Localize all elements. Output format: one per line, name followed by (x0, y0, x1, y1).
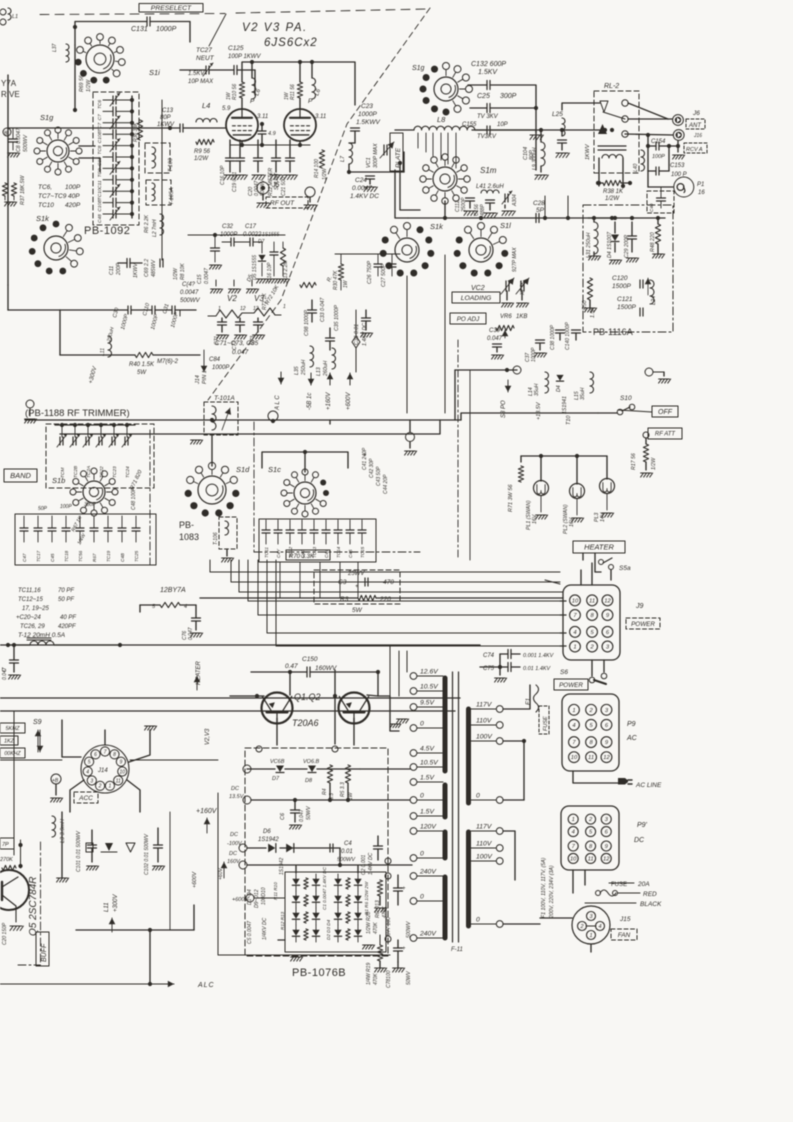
pointer diagonal TC27 (209, 14, 226, 46)
svg-text:110V: 110V (476, 718, 493, 725)
grounds PB-1076B (291, 957, 303, 961)
diode D3 (292, 913, 299, 919)
svg-text:1: 1 (572, 817, 575, 823)
svg-text:C47: C47 (22, 553, 27, 562)
svg-text:1083: 1083 (179, 532, 199, 542)
wire ACC down (169, 812, 171, 930)
svg-text:7: 7 (104, 749, 107, 755)
svg-text:D6: D6 (263, 829, 271, 835)
jack P1 (674, 177, 694, 197)
board PB-1076B outline (245, 748, 388, 956)
coil L2 7mH (160, 214, 164, 235)
svg-text:12: 12 (253, 306, 259, 312)
J14 pin 4 (83, 767, 92, 776)
svg-text:12: 12 (604, 598, 611, 604)
ground C155 (535, 130, 537, 132)
svg-text:3: 3 (90, 778, 93, 784)
transformer left winding bars (443, 678, 448, 771)
svg-text:PIN 1: PIN 1 (202, 370, 208, 384)
ground mid bus (329, 420, 331, 424)
wire VR6 area (454, 370, 456, 420)
fuse symbol (352, 336, 360, 348)
svg-text:R5 3.3: R5 3.3 (340, 782, 346, 797)
PB-1188 trimmers (61, 425, 63, 437)
svg-text:F-11: F-11 (451, 947, 463, 953)
svg-text:2: 2 (98, 784, 102, 790)
lamp PL2 (570, 484, 585, 499)
svg-text:10.5V: 10.5V (420, 684, 439, 691)
svg-text:5.9: 5.9 (222, 106, 231, 112)
svg-text:250uH: 250uH (301, 359, 307, 376)
switch S1k upper (44, 236, 68, 260)
switch S1g upper (47, 140, 69, 162)
svg-text:+160V: +160V (326, 391, 332, 410)
svg-text:380P: 380P (84, 502, 96, 508)
transformer core (452, 672, 454, 942)
relay coil (598, 145, 626, 147)
connector J9 (563, 585, 620, 660)
diode D7 (276, 766, 284, 773)
svg-text:240V: 240V (419, 931, 437, 938)
svg-text:LOADING: LOADING (461, 295, 492, 302)
tap 240V (410, 935, 417, 942)
svg-text:100V: 100V (476, 854, 493, 861)
svg-text:120V: 120V (420, 824, 437, 831)
wire heater row (60, 309, 128, 311)
svg-text:12.6V: 12.6V (420, 669, 439, 676)
label RF OUT (266, 197, 308, 208)
PB-1188 top bus (55, 424, 135, 426)
svg-text:1W: 1W (226, 91, 232, 100)
svg-text:TC9: TC9 (97, 168, 103, 177)
S1c top frame wire (262, 452, 348, 468)
svg-text:C42 30P: C42 30P (369, 458, 375, 478)
svg-text:AC LINE: AC LINE (635, 782, 662, 789)
switch S1i (86, 45, 114, 73)
svg-text:C21 500: C21 500 (281, 177, 287, 196)
svg-text:C27 500P: C27 500P (381, 263, 387, 287)
socket J14 (81, 745, 129, 793)
svg-text:0.47: 0.47 (285, 663, 298, 670)
bottom left wires (76, 929, 194, 931)
switch S5a (582, 553, 584, 560)
svg-text:1000P: 1000P (156, 26, 177, 33)
board bank under S1c (259, 519, 376, 562)
label PO ADJ (450, 313, 486, 324)
L8 taps (417, 133, 419, 148)
terminal PB-1076B in2 (332, 746, 338, 752)
svg-text:C35 1000P: C35 1000P (334, 305, 340, 331)
tap right 117V (496, 706, 503, 713)
resistor R14 (319, 150, 324, 168)
svg-text:260uH: 260uH (323, 360, 329, 377)
svg-text:10: 10 (120, 769, 126, 775)
svg-text:70 PF: 70 PF (58, 588, 74, 594)
label BUFF (36, 932, 49, 966)
svg-text:R13 2.2M: R13 2.2M (283, 259, 289, 282)
switch S1c (294, 482, 316, 504)
svg-text:PO ADJ: PO ADJ (457, 316, 480, 323)
svg-text:1/4W: 1/4W (76, 532, 87, 546)
J14 frame wires (62, 720, 81, 757)
rectifier resistors (304, 878, 308, 889)
svg-text:1000P: 1000P (358, 111, 377, 118)
long bus y698 (0, 697, 460, 699)
lamp PL1 (534, 481, 549, 496)
wire S1m to bus (444, 255, 446, 413)
wire driver caps (222, 241, 231, 243)
svg-text:1/2W: 1/2W (86, 79, 92, 92)
svg-text:R4: R4 (322, 788, 328, 795)
svg-text:300P: 300P (500, 93, 517, 100)
tap 0 (410, 898, 417, 905)
svg-text:R11 R10: R11 R10 (273, 882, 278, 900)
wire J14 loop (218, 793, 390, 955)
tap 10.5V (410, 688, 417, 695)
svg-text:D9~D12: D9~D12 (254, 889, 260, 908)
tap 0 (410, 855, 417, 862)
svg-text:1W: 1W (343, 279, 349, 288)
resistor 12BY7A heater (160, 602, 180, 607)
svg-text:BUFF: BUFF (41, 943, 48, 962)
svg-text:S9: S9 (33, 719, 42, 726)
switch S1b (83, 481, 105, 503)
wire S1m bottom bus (408, 217, 612, 219)
wire T-101A down (211, 435, 213, 466)
svg-text:VO6.B: VO6.B (303, 759, 320, 765)
svg-text:BLACK: BLACK (640, 901, 662, 908)
plate bus (241, 98, 243, 109)
tap 9.5V (410, 704, 417, 711)
svg-text:C44 20P: C44 20P (383, 474, 389, 494)
svg-text:R71 3W 56: R71 3W 56 (508, 484, 514, 512)
svg-text:VR6: VR6 (500, 314, 512, 320)
diode D4 (292, 930, 299, 936)
svg-text:L6: L6 (254, 88, 262, 97)
svg-text:1KWV: 1KWV (585, 143, 591, 160)
diode D1 (292, 879, 299, 885)
label 25WV C3 470 R3 220 5W (314, 570, 400, 604)
svg-text:4: 4 (86, 769, 89, 775)
svg-text:TC19: TC19 (106, 550, 111, 562)
ground Q2 (390, 724, 401, 728)
J14 pin 10 (118, 767, 127, 776)
wire TC27 line (180, 69, 206, 71)
coil L4 (196, 119, 217, 123)
vertical wires mid board (457, 340, 459, 560)
svg-text:8: 8 (113, 752, 116, 758)
svg-text:C43 50P: C43 50P (376, 466, 382, 486)
svg-text:1000P: 1000P (150, 313, 160, 330)
svg-text:6: 6 (94, 752, 97, 758)
svg-text:1KWV: 1KWV (157, 122, 175, 128)
svg-text:C101 0.01 500WV: C101 0.01 500WV (76, 830, 82, 872)
svg-text:RED: RED (643, 891, 657, 898)
svg-text:D4 1S1007: D4 1S1007 (607, 231, 613, 258)
label POWER S6 (554, 679, 588, 690)
svg-text:17, 19~25: 17, 19~25 (22, 606, 50, 612)
svg-text:J14: J14 (195, 375, 201, 385)
svg-text:C38 1000P: C38 1000P (550, 324, 556, 350)
grounds PA row (215, 280, 217, 286)
svg-text:160WV: 160WV (315, 665, 337, 672)
resistor R4 3.3 (327, 765, 332, 783)
svg-text:7: 7 (572, 844, 576, 850)
coil L6a (252, 78, 256, 99)
label FUSE vertical (539, 706, 549, 734)
svg-text:PLATE: PLATE (395, 147, 402, 168)
svg-text:Y7A: Y7A (1, 79, 17, 88)
svg-text:500WV: 500WV (23, 134, 29, 152)
svg-text:1/4KV DC: 1/4KV DC (262, 917, 268, 940)
svg-text:5W: 5W (137, 370, 147, 376)
svg-text:C40: C40 (649, 203, 654, 212)
tube V2 6JS6C (226, 109, 258, 141)
transformer T-103 (145, 143, 170, 173)
svg-text:C17: C17 (245, 224, 257, 230)
svg-text:C20 150P: C20 150P (2, 922, 8, 945)
board BUFF boundary (40, 842, 42, 965)
coil L1 (8, 8, 11, 20)
svg-text:10: 10 (572, 598, 579, 604)
svg-text:T-103: T-103 (168, 157, 174, 172)
resistor R10 56 1W (239, 82, 244, 98)
transistor Q2 (339, 693, 370, 724)
svg-text:C1 0.0047 1.4KV DC: C1 0.0047 1.4KV DC (322, 866, 327, 910)
svg-text:C11: C11 (97, 180, 103, 189)
svg-text:1: 1 (109, 784, 112, 790)
svg-text:D2 D3 D4: D2 D3 D4 (326, 919, 331, 940)
svg-text:1.5KV: 1.5KV (188, 71, 205, 77)
diode clamp (105, 843, 113, 851)
diode D8 (308, 766, 316, 773)
svg-text:P9: P9 (627, 721, 636, 728)
svg-text:11: 11 (588, 755, 594, 761)
svg-text:+60V: +60V (218, 868, 224, 880)
svg-text:VC2: VC2 (471, 285, 485, 292)
svg-text:R17 56: R17 56 (631, 453, 637, 470)
svg-text:0.0047: 0.0047 (180, 290, 199, 296)
switch S1g tank (434, 77, 458, 101)
board PB-1188 lower bank (15, 514, 156, 565)
svg-text:TC26, 29: TC26, 29 (20, 624, 45, 630)
svg-text:DC: DC (231, 786, 239, 792)
svg-text:M7(6)-2: M7(6)-2 (157, 359, 179, 365)
svg-text:P9': P9' (637, 822, 648, 829)
Q1 emitter down (276, 718, 278, 745)
svg-text:C26 750P: C26 750P (367, 260, 373, 284)
long bus y711 (0, 710, 455, 712)
svg-text:0.001 1.4KV: 0.001 1.4KV (523, 653, 555, 659)
svg-text:R37 18K.5W: R37 18K.5W (20, 174, 26, 205)
tap 0 (410, 797, 417, 804)
svg-text:12: 12 (603, 755, 610, 761)
svg-text:40P: 40P (68, 193, 80, 200)
tap 10.5V (410, 764, 417, 771)
label BAND (4, 469, 37, 482)
wire bus y760 right (130, 759, 218, 761)
diode D5 1S1555 (258, 255, 265, 261)
svg-text:0.047: 0.047 (232, 349, 249, 356)
label 5KHZ (0, 723, 25, 733)
svg-text:J14: J14 (97, 768, 108, 774)
svg-text:C48 100P: C48 100P (131, 487, 137, 510)
svg-text:+600V: +600V (346, 391, 352, 410)
svg-text:9: 9 (120, 760, 123, 766)
ground transformer left (397, 719, 409, 723)
label LOADING (452, 292, 500, 303)
wire mid vertical (334, 670, 336, 744)
tap right 117V (496, 828, 503, 835)
svg-text:Q1.Q2: Q1.Q2 (294, 692, 321, 702)
diode D13 (354, 879, 361, 885)
svg-text:50 PF: 50 PF (58, 597, 74, 603)
svg-text:C31: C31 (162, 303, 170, 314)
svg-text:5: 5 (589, 723, 593, 729)
svg-text:9: 9 (606, 613, 610, 619)
svg-text:L35: L35 (294, 366, 300, 375)
svg-text:C120: C120 (612, 275, 628, 282)
svg-text:1/2W: 1/2W (651, 457, 657, 470)
svg-text:9.5V: 9.5V (420, 700, 435, 707)
transistor Q5 (0, 870, 29, 910)
svg-text:R40 1.5K: R40 1.5K (129, 362, 155, 368)
svg-text:4: 4 (572, 830, 575, 836)
diode D2 (292, 896, 299, 902)
svg-text:D7: D7 (272, 776, 280, 782)
node A (73, 25, 77, 29)
label HEATER (573, 541, 625, 553)
svg-text:TC6: TC6 (97, 100, 103, 109)
svg-text:(PB-1188 RF TRIMMER): (PB-1188 RF TRIMMER) (25, 408, 130, 419)
jack J6 ANT (673, 115, 684, 126)
svg-text:FUSE: FUSE (543, 716, 549, 731)
label TP (0, 838, 14, 849)
svg-text:6: 6 (605, 723, 609, 729)
svg-text:10: 10 (570, 857, 577, 863)
svg-text:200V, 220V, 234V (3A): 200V, 220V, 234V (3A) (549, 865, 555, 919)
terminal left bus (406, 433, 415, 442)
switch S1d (198, 476, 226, 504)
svg-text:C84: C84 (209, 357, 221, 363)
grounds PB-1116A (589, 256, 601, 260)
resistor R19 470K (377, 945, 382, 961)
svg-text:4: 4 (598, 924, 601, 930)
svg-text:C16 10P: C16 10P (220, 165, 226, 185)
svg-text:R11 56: R11 56 (290, 84, 296, 100)
lamp bottom leads (540, 496, 542, 512)
svg-text:1: 1 (283, 304, 286, 310)
svg-text:470K: 470K (373, 973, 379, 985)
transformer T-106 (219, 517, 237, 549)
svg-text:+: + (402, 946, 406, 952)
svg-text:1500P: 1500P (617, 304, 636, 311)
svg-text:L4: L4 (202, 101, 210, 110)
svg-text:S5a: S5a (619, 565, 631, 572)
svg-text:L2 7mH: L2 7mH (152, 219, 158, 237)
svg-text:RIVE: RIVE (1, 90, 20, 99)
svg-text:+160V: +160V (196, 808, 218, 815)
diode D14 (354, 896, 361, 902)
svg-text:488P: 488P (480, 204, 486, 216)
svg-text:TC10: TC10 (97, 188, 103, 200)
tap 12.6V (410, 673, 417, 680)
svg-text:C102 0.01 500WV: C102 0.01 500WV (144, 833, 150, 875)
svg-text:POWER: POWER (559, 682, 583, 689)
svg-text:3.11: 3.11 (257, 114, 268, 120)
svg-text:C13: C13 (162, 108, 174, 114)
svg-text:L40: L40 (633, 163, 639, 172)
jack J5 (257, 182, 269, 194)
label OFF (652, 406, 678, 417)
tap right 100V (496, 858, 503, 865)
coil L3 3.9mH (52, 816, 56, 837)
svg-text:4.9: 4.9 (268, 131, 276, 137)
svg-text:1KWV: 1KWV (133, 263, 139, 278)
terminal ALC mid (268, 411, 278, 421)
svg-text:L25: L25 (552, 111, 563, 118)
Q1 Q2 wires (251, 671, 307, 673)
svg-text:C10B: C10B (97, 130, 103, 143)
heater filaments (208, 310, 248, 318)
svg-text:R10 56: R10 56 (232, 84, 238, 100)
svg-text:10P: 10P (497, 122, 508, 128)
svg-text:1/2W: 1/2W (173, 267, 179, 280)
svg-text:C4B: C4B (120, 553, 125, 562)
terminal PB-1076B in1 (256, 746, 262, 752)
svg-text:TC56: TC56 (78, 550, 83, 562)
switch S10 (617, 409, 623, 415)
svg-text:80P: 80P (529, 150, 535, 160)
svg-text:10P MAX: 10P MAX (188, 79, 214, 85)
svg-text:50P: 50P (38, 506, 48, 512)
svg-text:C110: C110 (142, 302, 151, 317)
svg-text:0.0022: 0.0022 (243, 232, 262, 238)
resistor R9 56 (196, 139, 214, 144)
svg-text:TC27: TC27 (196, 47, 212, 54)
svg-text:S1b: S1b (52, 476, 65, 485)
svg-text:R67 1K: R67 1K (70, 515, 83, 533)
label ACC (74, 792, 98, 803)
label PLATE (390, 133, 403, 171)
coil L9 300uH (541, 142, 545, 166)
svg-text:4: 4 (572, 723, 575, 729)
svg-text:4.5V: 4.5V (420, 746, 435, 753)
wire loading bus (455, 369, 517, 371)
svg-text:L3 3.9mH: L3 3.9mH (60, 819, 66, 843)
svg-text:300P MAX: 300P MAX (373, 143, 379, 168)
svg-text:7P: 7P (2, 842, 9, 848)
svg-text:D8: D8 (305, 778, 313, 784)
svg-text:3: 3 (589, 914, 593, 920)
terminal left mid (26, 400, 34, 408)
svg-text:11: 11 (588, 857, 594, 863)
svg-text:TC7~TC9: TC7~TC9 (38, 193, 67, 200)
resistor R13 2.2M (280, 248, 285, 266)
capacitor C29 200P (628, 235, 637, 237)
capacitor C72 (236, 321, 245, 323)
wire DC row2 (243, 796, 251, 804)
rectifier board inner box (285, 872, 386, 952)
wire Q1 collector (289, 672, 291, 695)
svg-text:HEATER: HEATER (584, 543, 614, 552)
svg-text:T10: T10 (566, 415, 572, 425)
wire Q5 base rail (20, 840, 22, 868)
svg-text:J5: J5 (271, 182, 280, 189)
svg-text:+300V: +300V (88, 365, 99, 384)
svg-text:420PF: 420PF (58, 624, 76, 630)
tap 1.5V (410, 813, 417, 820)
